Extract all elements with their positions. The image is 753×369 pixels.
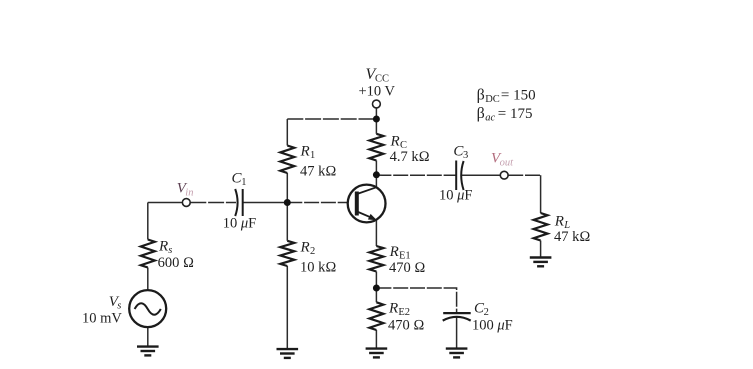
svg-text:R: R — [389, 244, 399, 260]
svg-text:R: R — [158, 239, 168, 255]
svg-text:+10 V: +10 V — [359, 84, 396, 100]
terminal Vout — [500, 171, 508, 179]
svg-text:10 μF: 10 μF — [223, 216, 256, 232]
svg-text:47 kΩ: 47 kΩ — [554, 229, 591, 245]
label beta ac — [477, 105, 533, 123]
label C1 value — [223, 171, 256, 232]
wire input node down to Rs — [147, 203, 149, 240]
svg-text:R: R — [300, 240, 310, 256]
wire input node to Vin terminal and C1 — [148, 202, 183, 204]
svg-text:in: in — [185, 188, 193, 199]
wire RL bottom to ground — [540, 241, 542, 258]
svg-text:R: R — [554, 214, 564, 230]
junction Vcc node — [373, 116, 380, 123]
label RE1 value — [389, 244, 426, 276]
label Vin — [177, 181, 194, 199]
source Vs — [129, 290, 166, 327]
wire RE1 bottom to emitter node — [375, 272, 377, 303]
wire Rs bottom to Vs — [147, 268, 149, 291]
wire corner down to RL — [540, 175, 542, 213]
ground under RE2 — [366, 349, 388, 358]
junction collector node — [373, 171, 380, 178]
resistor RE1 — [369, 246, 383, 272]
wire RC bottom to collector node — [375, 161, 377, 175]
wire C1 to base node — [243, 202, 287, 204]
svg-text:= 175: = 175 — [498, 106, 533, 122]
wire R2 bottom to ground — [286, 266, 288, 349]
svg-text:DC: DC — [485, 94, 500, 105]
svg-text:R: R — [390, 133, 400, 149]
svg-text:470 Ω: 470 Ω — [388, 318, 425, 334]
resistor Rs — [141, 240, 155, 268]
capacitor C3 — [456, 161, 463, 191]
svg-text:1: 1 — [241, 177, 246, 188]
wire R1 bottom to base node — [286, 173, 288, 241]
svg-text:10 kΩ: 10 kΩ — [300, 260, 337, 276]
label Rs value — [158, 239, 195, 272]
wire collector node to C3 — [376, 174, 455, 176]
resistor R2 — [280, 241, 294, 266]
wire top rail down to R1 — [286, 119, 288, 146]
label R1 value — [300, 144, 337, 180]
ground under C2 — [446, 349, 468, 358]
svg-text:1: 1 — [310, 150, 315, 161]
svg-text:β: β — [477, 105, 485, 122]
wire base node to transistor base — [287, 202, 348, 204]
label RL value — [554, 214, 591, 245]
label C3 value — [439, 143, 472, 203]
svg-text:3: 3 — [463, 150, 468, 161]
wire emitter node to C2 — [376, 288, 456, 313]
svg-text:out: out — [500, 158, 514, 169]
svg-text:R: R — [388, 301, 398, 317]
resistor RC — [369, 134, 383, 161]
wire C2 bottom plate to ground — [456, 318, 458, 349]
terminal Vin — [182, 199, 190, 207]
wire RE2 bottom to ground — [375, 330, 377, 349]
ground under R2 — [277, 349, 299, 358]
label beta DC — [477, 87, 536, 105]
svg-text:4.7 kΩ: 4.7 kΩ — [390, 149, 430, 165]
label Vcc — [359, 66, 396, 100]
svg-text:E2: E2 — [398, 307, 410, 318]
svg-text:470 Ω: 470 Ω — [389, 260, 426, 276]
junction emitter node — [373, 285, 380, 292]
junction base node — [284, 199, 291, 206]
svg-text:= 150: = 150 — [501, 88, 536, 104]
label RC value — [390, 133, 430, 165]
capacitor C1 — [235, 189, 243, 216]
svg-text:600 Ω: 600 Ω — [158, 255, 195, 271]
resistor RE2 — [369, 302, 383, 330]
wire C3 to Vout terminal — [462, 174, 500, 176]
terminal Vcc — [373, 100, 381, 108]
label Vout — [491, 151, 514, 169]
resistor RL — [534, 213, 548, 241]
svg-text:10 μF: 10 μF — [439, 187, 472, 203]
label RE2 value — [388, 301, 425, 334]
svg-text:100 μF: 100 μF — [472, 318, 513, 334]
wire transistor emitter down to RE1 — [375, 220, 377, 246]
ground under Vs — [137, 347, 159, 356]
svg-text:R: R — [300, 144, 310, 160]
wire Vcc junction to RC — [375, 119, 377, 134]
svg-text:β: β — [477, 87, 485, 104]
wire top rail horizontal — [287, 118, 376, 120]
capacitor C2 — [443, 313, 471, 321]
svg-text:47 kΩ: 47 kΩ — [300, 164, 337, 180]
svg-text:ac: ac — [485, 112, 495, 123]
wire Vout terminal to corner — [508, 174, 540, 176]
label Vs value — [82, 294, 122, 327]
svg-text:2: 2 — [484, 307, 489, 318]
transistor Q1 — [348, 185, 386, 223]
label R2 value — [300, 240, 337, 276]
wire Vs bottom to ground — [147, 327, 149, 347]
ground under RL — [530, 258, 552, 267]
svg-text:2: 2 — [310, 246, 315, 257]
svg-text:10 mV: 10 mV — [82, 311, 122, 327]
wire Vcc terminal to top rail — [375, 108, 377, 120]
wire collector node to transistor collector — [375, 175, 377, 188]
resistor R1 — [280, 146, 294, 174]
label C2 value — [472, 301, 513, 334]
